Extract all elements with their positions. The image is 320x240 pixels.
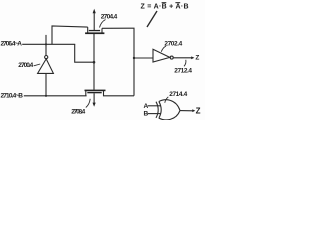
wire inverter output to A line xyxy=(45,35,47,56)
transistor Q1 channel bar xyxy=(85,32,104,34)
inverter U2 bubble xyxy=(170,56,173,59)
svg-text:2702.4: 2702.4 xyxy=(164,40,182,47)
node junction dot A/inverter xyxy=(45,43,47,45)
svg-text:Z: Z xyxy=(195,55,199,62)
transistor Q2 gate arrowhead xyxy=(93,103,96,107)
leader label 2708.4 xyxy=(86,99,90,108)
leader formula xyxy=(147,11,157,27)
transistor Q1 gate arrowhead xyxy=(93,9,96,13)
transistor Q1 gate lead with arrow xyxy=(93,13,95,31)
transistor Q1 left lead xyxy=(87,27,89,32)
XOR gate U3 input B wire xyxy=(148,113,161,115)
wire Z output xyxy=(173,57,192,59)
inverter U1 triangle xyxy=(38,59,54,74)
node junction dot output/tap xyxy=(133,57,135,59)
formula overbar on first B xyxy=(162,2,167,3)
formula overbar on second A xyxy=(175,2,180,3)
wire top rail right xyxy=(102,28,134,96)
wire A up to top rail xyxy=(52,26,88,44)
wire inverter input from B line xyxy=(45,73,47,95)
wire B input line xyxy=(24,95,87,97)
transistor Q2 channel bar xyxy=(85,90,106,92)
arrowhead Z output xyxy=(191,56,194,59)
transistor Q2 gate bar xyxy=(87,92,101,93)
svg-text:2710.4~B: 2710.4~B xyxy=(1,92,24,99)
leader label 2700.4 xyxy=(34,64,40,66)
leader label 2702.4 xyxy=(161,46,166,52)
leader label 2704.4 xyxy=(100,20,106,28)
svg-text:B: B xyxy=(144,111,149,118)
arrowhead XOR output xyxy=(192,109,195,112)
svg-text:2714.4: 2714.4 xyxy=(169,91,187,98)
svg-text:2712.4: 2712.4 xyxy=(174,67,192,74)
wire bottom rail right xyxy=(104,91,135,96)
leader label 2714.4 xyxy=(165,97,169,103)
node junction dot A/middle xyxy=(93,61,96,64)
wire middle vertical (bulk line) xyxy=(93,34,95,90)
transistor Q1 gate bar xyxy=(89,30,100,31)
wire A step down to node xyxy=(75,44,94,62)
XOR gate U3 input A wire xyxy=(148,105,161,107)
inverter U1 bubble xyxy=(45,56,48,59)
svg-text:A: A xyxy=(144,103,149,110)
transistor Q2 gate lead with arrow xyxy=(93,93,95,103)
svg-text:2700.4: 2700.4 xyxy=(18,62,33,69)
node junction dot B/inverter xyxy=(45,95,47,97)
svg-text:Z = A·B + A·B: Z = A·B + A·B xyxy=(141,3,189,10)
XOR gate U3 body xyxy=(159,100,180,120)
wire A input line xyxy=(22,43,75,45)
svg-text:Z: Z xyxy=(196,106,201,115)
wire XOR output xyxy=(180,110,193,112)
svg-text:2708.4: 2708.4 xyxy=(71,108,85,115)
inverter U2 triangle xyxy=(153,49,170,62)
svg-text:2704.4: 2704.4 xyxy=(101,13,118,20)
transistor Q2 left lead xyxy=(85,91,87,96)
transistor Q1 right lead xyxy=(101,28,103,32)
XOR gate U3 extra arc xyxy=(156,102,158,118)
leader label 2712.4 xyxy=(184,60,186,67)
wire tap to inverter U2 xyxy=(134,57,153,59)
svg-text:2706.4~A: 2706.4~A xyxy=(1,41,23,48)
